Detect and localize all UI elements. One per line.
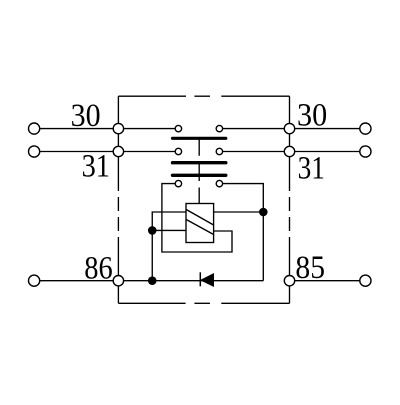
- wire coil left upper jumper: [152, 212, 186, 281]
- pin 86 on housing: [113, 276, 123, 286]
- coil U1 box: [186, 204, 214, 243]
- pin 31 right on housing: [284, 146, 294, 156]
- wire terminal 31 right: [219, 151, 365, 153]
- relay housing outline left edge: [117, 96, 119, 303]
- wire terminal 85: [290, 280, 366, 282]
- svg-text:31: 31: [298, 150, 325, 186]
- relay housing outline bottom edge: [118, 302, 289, 304]
- pin 30 left on housing: [113, 123, 123, 133]
- contact bridge bar lower: [173, 174, 226, 177]
- wire terminal 30 right: [219, 128, 365, 130]
- contact point NC right: [216, 180, 222, 186]
- diode D1 triangle: [201, 274, 214, 286]
- terminal 86: [28, 275, 39, 286]
- terminal 30 right: [360, 123, 371, 134]
- svg-text:85: 85: [295, 250, 325, 286]
- wire terminal 86: [34, 280, 152, 282]
- contact bridge bar upper: [173, 137, 226, 140]
- relay housing outline right edge: [289, 96, 291, 303]
- wire terminal 31 left: [34, 151, 178, 153]
- terminal 31 right: [360, 146, 371, 157]
- contact point 30 left: [175, 125, 181, 131]
- terminal 31 left: [28, 146, 39, 157]
- junction dot coil right: [259, 208, 268, 217]
- pin 31 left on housing: [113, 146, 123, 156]
- contact point NC left: [175, 180, 181, 186]
- contact point 31 right: [216, 148, 222, 154]
- wire contact NC row right down: [219, 184, 263, 281]
- svg-text:30: 30: [297, 97, 327, 133]
- pin 30 right on housing: [284, 123, 294, 133]
- armature link (dashed): [198, 139, 200, 204]
- contact point 31 left: [175, 148, 181, 154]
- terminal 30 left: [28, 123, 39, 134]
- junction dot 86 line: [148, 276, 157, 285]
- svg-text:31: 31: [82, 148, 110, 184]
- svg-text:30: 30: [71, 98, 101, 134]
- diode D1 cathode bar: [199, 272, 201, 286]
- coil diagonal 1: [186, 209, 214, 225]
- relay housing outline (dash-dot box) top edge: [118, 95, 289, 97]
- wire contact NC row left to coil: [162, 184, 232, 252]
- coil diagonal 2: [186, 219, 214, 234]
- pin 85 on housing: [284, 276, 294, 286]
- wire diode branch 86 to 85 side: [152, 280, 263, 282]
- contact bridge bar middle: [173, 161, 226, 164]
- wire coil left lower: [152, 229, 186, 231]
- terminal 85: [360, 275, 371, 286]
- wire coil right upper: [214, 211, 264, 213]
- junction dot coil left: [148, 226, 157, 235]
- wire terminal 30 left: [34, 128, 178, 130]
- svg-text:86: 86: [84, 251, 112, 287]
- contact point 30 right: [216, 125, 222, 131]
